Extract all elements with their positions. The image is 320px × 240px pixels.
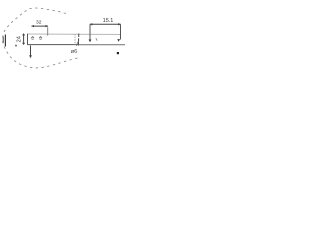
stray dot: [117, 52, 119, 54]
svg-text:15.1: 15.1: [103, 18, 114, 24]
extension line: [47, 27, 49, 35]
svg-text:24: 24: [17, 36, 23, 42]
right dimension 15.1: [90, 23, 121, 25]
band end cross-section marks (coiled position): [2, 37, 4, 44]
band top edge (light): [28, 33, 121, 36]
band bottom edge: [27, 44, 78, 46]
svg-text:ø6: ø6: [71, 49, 79, 55]
extension verticals with down arrows: [89, 25, 91, 41]
break curl: [76, 41, 78, 46]
down arrow from band: [30, 46, 32, 56]
small band mark: [96, 38, 98, 40]
stray dot left: [15, 45, 17, 47]
vertical dimension 24 (band width): [23, 34, 25, 45]
coiled band dashed outline (alternate position loop): [3, 8, 79, 68]
break lines: [74, 34, 76, 45]
band left edge: [27, 34, 29, 45]
tiny markings inside band: [31, 37, 34, 39]
svg-text:32: 32: [36, 20, 42, 26]
top-left dimension: [32, 25, 49, 27]
